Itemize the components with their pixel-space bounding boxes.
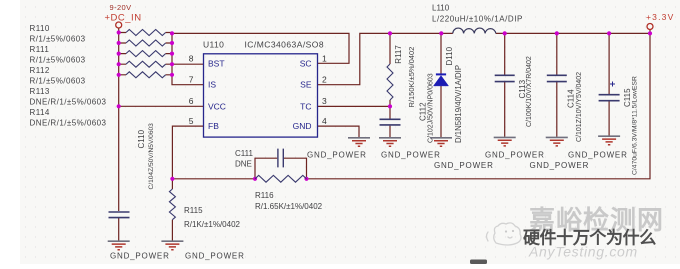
svg-text:R117: R117 xyxy=(394,45,403,64)
svg-text:7: 7 xyxy=(189,75,194,85)
ground pin4 GND_POWER xyxy=(307,138,370,160)
resistor R112 xyxy=(119,51,172,57)
svg-text:R/1/±5%/0603: R/1/±5%/0603 xyxy=(30,35,86,44)
IC pin names and numbers xyxy=(189,54,327,132)
svg-text:2: 2 xyxy=(322,75,327,85)
wire R116 to +3.3V rail xyxy=(307,30,651,179)
resistor R117 xyxy=(387,45,416,108)
wire VCC pin6 xyxy=(119,105,204,107)
ground C113 GND_POWER xyxy=(485,137,545,159)
wire pin8 stub xyxy=(172,63,204,65)
svg-text:R113: R113 xyxy=(30,87,50,96)
wire C114 leads xyxy=(556,33,558,136)
svg-text:R114: R114 xyxy=(30,108,50,117)
ground D110 GND_POWER xyxy=(430,138,494,170)
svg-text:GND_POWER: GND_POWER xyxy=(485,151,545,160)
svg-text:5: 5 xyxy=(189,116,194,126)
capacitor C110 xyxy=(109,123,156,218)
svg-text:DNE/R/1/±5%/0603: DNE/R/1/±5%/0603 xyxy=(30,98,107,107)
wire D110 leads xyxy=(440,33,442,137)
svg-text:L/220uH/±10%/1A/DIP: L/220uH/±10%/1A/DIP xyxy=(432,15,523,24)
svg-text:GND_POWER: GND_POWER xyxy=(110,252,170,261)
svg-text:8: 8 xyxy=(189,54,194,64)
svg-text:GND_POWER: GND_POWER xyxy=(185,252,245,261)
capacitor C111 xyxy=(235,149,283,169)
watermark bottom fragment xyxy=(470,260,487,265)
svg-text:R112: R112 xyxy=(30,66,50,75)
svg-text:IC/MC34063A/SO8: IC/MC34063A/SO8 xyxy=(245,40,325,50)
svg-text:SC: SC xyxy=(300,58,312,68)
svg-text:SE: SE xyxy=(300,80,312,90)
labels R110-R114 xyxy=(30,24,107,128)
capacitor C112 xyxy=(380,73,435,143)
svg-text:9-20V: 9-20V xyxy=(110,3,132,12)
op-amp U1 (IC U110 MC34063A box) xyxy=(203,40,324,138)
svg-text:GND_POWER: GND_POWER xyxy=(307,151,367,160)
resistor R116 xyxy=(255,175,323,211)
wire C113 leads xyxy=(504,33,506,136)
svg-text:R/1K/±1%/0402: R/1K/±1%/0402 xyxy=(184,220,241,229)
svg-text:C/470uF/6.3V/M/8*11.5/LowESR: C/470uF/6.3V/M/8*11.5/LowESR xyxy=(632,76,639,175)
svg-text:3: 3 xyxy=(322,96,327,106)
wire resistor bank right rail xyxy=(172,33,204,84)
svg-text:TC: TC xyxy=(300,101,311,111)
svg-text:R/150K/±5%/0402: R/150K/±5%/0402 xyxy=(407,47,416,108)
svg-text:DNE: DNE xyxy=(235,160,252,169)
svg-text:GND_POWER: GND_POWER xyxy=(568,151,628,160)
svg-text:D110: D110 xyxy=(445,46,454,65)
power port +3.3V xyxy=(646,12,674,30)
svg-text:R/1/±5%/0603: R/1/±5%/0603 xyxy=(30,56,86,65)
watermark logo xyxy=(487,223,522,245)
svg-text:GND_POWER: GND_POWER xyxy=(434,161,494,170)
capacitor C113 xyxy=(495,56,533,127)
svg-text:R116: R116 xyxy=(255,191,274,200)
svg-text:R/1/±5%/0603: R/1/±5%/0603 xyxy=(30,77,86,86)
svg-text:R115: R115 xyxy=(184,206,203,215)
svg-text:R110: R110 xyxy=(30,24,50,33)
wire C112 leads xyxy=(389,106,391,137)
svg-text:L110: L110 xyxy=(432,4,450,13)
svg-text:D/1N5819/40V/1A/DIP: D/1N5819/40V/1A/DIP xyxy=(454,65,463,143)
power port +DC_IN xyxy=(105,3,142,28)
svg-text:GND_POWER: GND_POWER xyxy=(530,161,590,170)
svg-text:R111: R111 xyxy=(30,45,50,54)
wire C111 leads xyxy=(255,158,307,179)
ground C115 GND_POWER xyxy=(568,136,628,159)
svg-text:AnyTesting.com: AnyTesting.com xyxy=(528,244,638,260)
wire FB pin5 to divider node xyxy=(172,126,203,189)
wire left DC_IN rail xyxy=(118,28,120,211)
svg-text:C/100K/10V/X7R/0402: C/100K/10V/X7R/0402 xyxy=(526,56,533,127)
capacitor C115 xyxy=(599,76,639,175)
wire SE pin2 to switch node rail xyxy=(318,33,651,84)
wire R115 to ground xyxy=(171,220,173,242)
svg-text:FB: FB xyxy=(208,121,219,131)
wire R117 leads xyxy=(389,33,391,106)
svg-text:C111: C111 xyxy=(235,149,253,158)
svg-text:GND: GND xyxy=(293,121,312,131)
wire DC_IN to SC pin1 xyxy=(172,33,349,63)
svg-text:DNE/R/1/±5%/0603: DNE/R/1/±5%/0603 xyxy=(30,119,107,128)
svg-text:C110: C110 xyxy=(137,129,146,148)
svg-text:+3.3V: +3.3V xyxy=(646,12,674,22)
svg-text:+DC_IN: +DC_IN xyxy=(105,13,142,24)
svg-text:IS: IS xyxy=(208,80,216,90)
capacitor C114 xyxy=(547,72,583,142)
resistor R115 xyxy=(169,189,240,229)
svg-text:BST: BST xyxy=(208,58,225,68)
svg-text:4: 4 xyxy=(322,116,327,126)
resistor R114 xyxy=(119,72,172,78)
wire C110 leads xyxy=(118,218,120,242)
svg-text:C/104Z/50V/N5V/0603: C/104Z/50V/N5V/0603 xyxy=(148,123,155,190)
svg-text:GND_POWER: GND_POWER xyxy=(381,151,441,160)
wire GND pin4 xyxy=(318,126,360,137)
resistor R111 xyxy=(119,40,172,46)
svg-text:C114: C114 xyxy=(567,89,576,108)
resistor R113 xyxy=(119,61,172,67)
wire C115 leads xyxy=(608,33,610,135)
svg-text:C/102J/50V/NP0/0603: C/102J/50V/NP0/0603 xyxy=(428,73,435,143)
diode D110 xyxy=(434,46,464,143)
wire TC pin3 xyxy=(318,105,391,107)
wire divider node to R116 xyxy=(172,178,255,180)
ground C112 GND_POWER xyxy=(379,138,441,160)
inductor L110 xyxy=(432,4,523,34)
svg-text:R/1.65K/±1%/0402: R/1.65K/±1%/0402 xyxy=(255,202,323,211)
svg-text:VCC: VCC xyxy=(208,101,226,111)
svg-text:C112: C112 xyxy=(419,102,428,121)
ground R115 GND_POWER xyxy=(161,241,244,260)
svg-text:U110: U110 xyxy=(203,40,224,50)
ground C110 GND_POWER xyxy=(108,241,170,260)
ground C114 GND_POWER xyxy=(530,137,590,170)
svg-text:6: 6 xyxy=(189,96,194,106)
svg-text:C/101Z/10V/Y5V/0402: C/101Z/10V/Y5V/0402 xyxy=(576,72,583,142)
svg-text:1: 1 xyxy=(322,54,327,64)
resistor R110 xyxy=(119,30,172,36)
